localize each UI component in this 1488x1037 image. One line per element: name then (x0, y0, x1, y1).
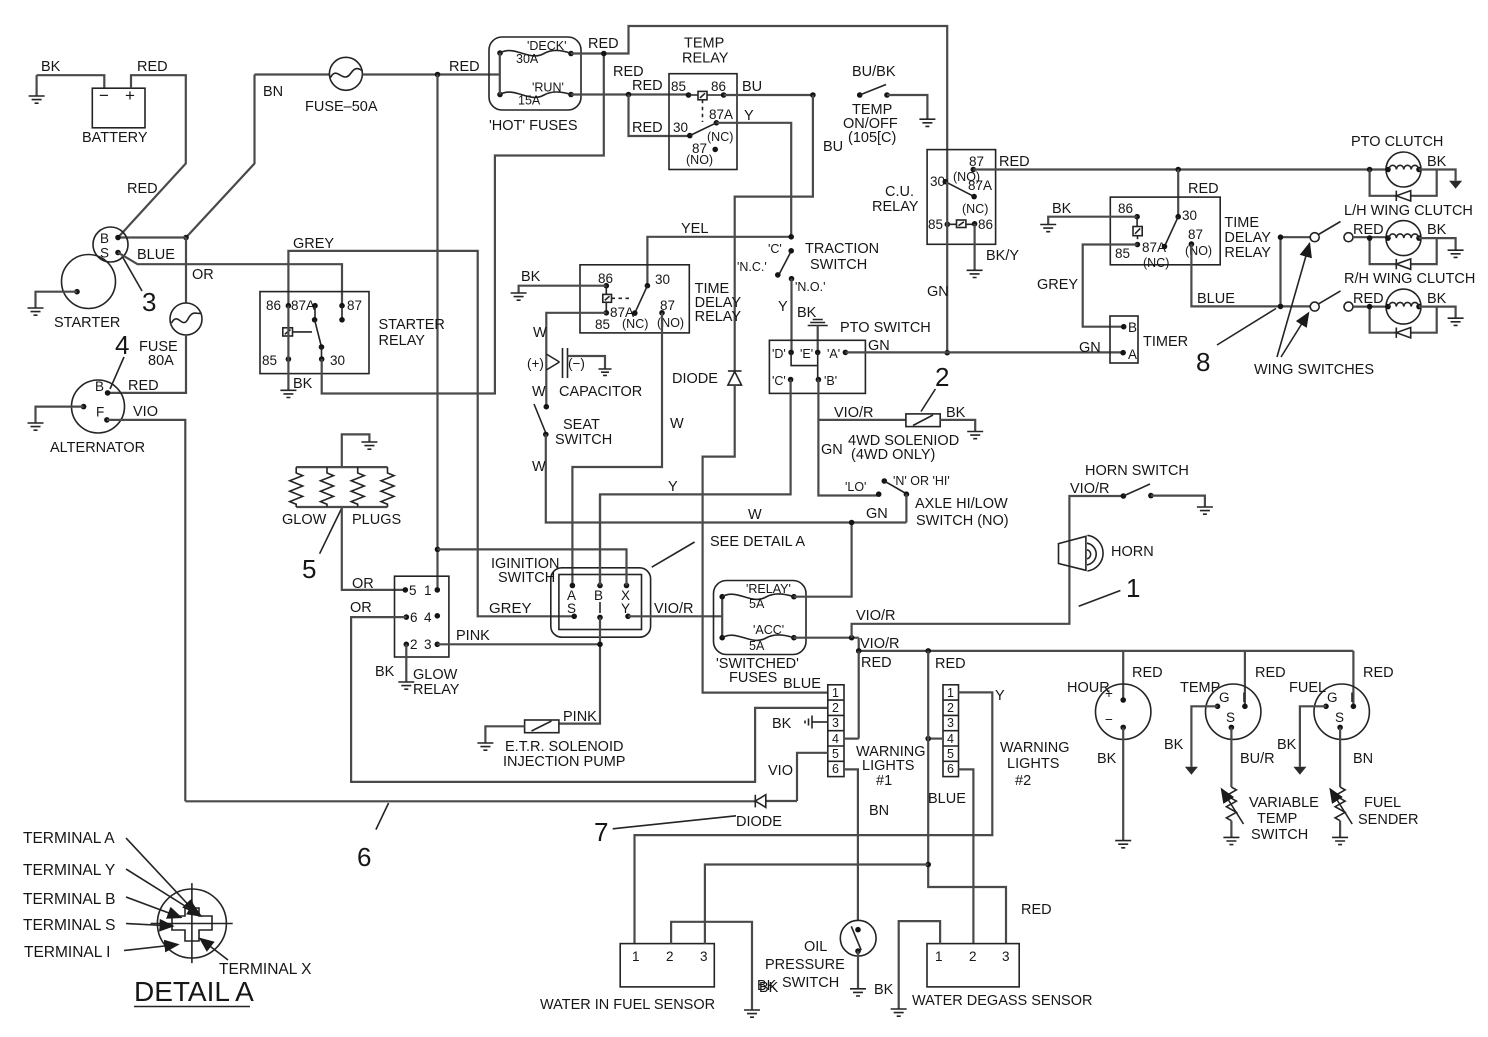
switched fuses box (714, 581, 807, 687)
pin 30 starter relay (319, 353, 345, 368)
svg-text:RED: RED (935, 656, 966, 672)
svg-text:+: + (125, 86, 135, 105)
diode L/H clutch (1367, 235, 1437, 269)
svg-text:S: S (1335, 710, 1344, 725)
svg-text:BK: BK (1427, 154, 1447, 170)
svg-text:BK: BK (1427, 222, 1447, 238)
wire Y temp relay 87A to traction (716, 108, 791, 237)
alternator A1 (50, 379, 145, 456)
pin 86 delay relay (1118, 201, 1140, 220)
svg-text:ALTERNATOR: ALTERNATOR (50, 440, 145, 456)
wire BU temp relay 86 to switch (724, 79, 813, 95)
wire W mid relay 85 to seat switch (533, 313, 606, 407)
wire RED battery to starter B (118, 59, 186, 238)
PTO switch S3 (769, 320, 930, 393)
svg-text:6: 6 (410, 610, 418, 625)
wire GN CU relay 85 down to timer line (927, 182, 950, 356)
armature delay relay (1142, 217, 1178, 270)
pin 30 mid relay (645, 272, 670, 289)
wire VIO/R ignition Y to switched fuses (628, 601, 722, 617)
svg-text:Y: Y (778, 299, 788, 315)
svg-text:1: 1 (832, 686, 839, 700)
svg-text:OR: OR (350, 600, 372, 616)
svg-text:AXLE HI/LOW: AXLE HI/LOW (915, 496, 1008, 512)
svg-text:−: − (99, 86, 109, 105)
svg-text:4: 4 (832, 732, 839, 746)
svg-text:FUEL: FUEL (1289, 680, 1326, 696)
pin 86 temp relay (711, 79, 726, 98)
svg-text:30: 30 (1182, 208, 1197, 223)
svg-text:BU/BK: BU/BK (852, 64, 896, 80)
svg-text:Y: Y (668, 479, 678, 495)
svg-text:(NC): (NC) (707, 130, 733, 144)
wire BK ground to mid relay 86 (511, 269, 607, 300)
wire GREY RED-node to ignition X (438, 549, 627, 585)
svg-text:YEL: YEL (681, 221, 708, 237)
svg-text:PRESSURE: PRESSURE (765, 957, 845, 973)
label terminal Y (23, 862, 201, 916)
svg-text:VIO/R: VIO/R (860, 636, 899, 652)
svg-text:1: 1 (424, 583, 432, 598)
svg-text:RED: RED (632, 78, 663, 94)
svg-text:86: 86 (711, 79, 726, 94)
svg-text:(NC): (NC) (1143, 256, 1169, 270)
label terminal A (23, 830, 196, 913)
svg-text:30: 30 (673, 120, 688, 135)
label terminal B (23, 891, 181, 918)
svg-text:2: 2 (832, 701, 839, 715)
horn H1 (1059, 535, 1154, 571)
svg-text:GLOW: GLOW (413, 667, 458, 683)
svg-text:PINK: PINK (563, 709, 597, 725)
svg-text:VIO: VIO (768, 763, 793, 779)
wire BK hour meter to ground (1097, 727, 1131, 847)
svg-text:BU/R: BU/R (1240, 751, 1275, 767)
svg-text:'N' OR 'HI': 'N' OR 'HI' (893, 474, 950, 488)
gauge temp (1180, 651, 1286, 740)
label 8 pointer to BLUE (1196, 309, 1276, 378)
svg-text:TERMINAL S: TERMINAL S (23, 917, 115, 934)
wire BLUE WL2 pin 6 to water degass 2 (928, 769, 973, 943)
svg-text:SWITCH: SWITCH (782, 975, 839, 991)
svg-text:W: W (532, 384, 546, 400)
svg-text:W: W (748, 507, 762, 523)
wire RED WL2 pin 4 (925, 736, 943, 742)
ground BK/Y CU relay 86 (967, 224, 1020, 278)
pin S ignition (567, 601, 577, 619)
svg-text:30: 30 (655, 272, 670, 287)
svg-text:85: 85 (262, 353, 277, 368)
oil pressure switch S5 (757, 920, 876, 996)
svg-text:RELAY: RELAY (1224, 245, 1271, 261)
svg-text:B: B (1128, 320, 1137, 335)
fuse RUN 15A (497, 81, 574, 108)
svg-text:'C': 'C' (768, 242, 782, 256)
ground battery BK (29, 75, 45, 103)
svg-text:1: 1 (1126, 573, 1140, 603)
svg-text:'LO': 'LO' (845, 480, 866, 494)
label 4 pointer to alternator B (110, 330, 129, 389)
svg-text:RED: RED (128, 378, 159, 394)
svg-text:HORN SWITCH: HORN SWITCH (1085, 463, 1189, 479)
svg-text:TERMINAL A: TERMINAL A (23, 830, 115, 847)
svg-text:C.U.: C.U. (885, 184, 914, 200)
svg-text:(+): (+) (527, 356, 544, 371)
svg-text:BK: BK (1097, 751, 1117, 767)
R/H wing clutch L3 (1344, 271, 1475, 324)
wire BK water in fuel 2 to ground (671, 922, 779, 1017)
svg-text:OR: OR (352, 576, 374, 592)
wire starter to ground (28, 292, 78, 316)
wire alternator to ground (28, 407, 84, 431)
sensor water in fuel (540, 944, 715, 1013)
svg-text:RED: RED (127, 181, 158, 197)
svg-text:'RUN': 'RUN' (532, 81, 564, 95)
wire OR glow relay 6 to warning lights 2 (350, 600, 828, 782)
pin 85 CU relay (928, 217, 950, 232)
svg-text:RED: RED (632, 120, 663, 136)
svg-text:SWITCH: SWITCH (555, 432, 612, 448)
svg-text:4: 4 (115, 330, 129, 360)
label terminal X (200, 939, 312, 979)
svg-text:S: S (567, 601, 576, 616)
svg-text:6: 6 (947, 762, 954, 776)
wire RED run output to temp relay 85 (571, 64, 689, 97)
svg-text:BK: BK (759, 980, 779, 996)
timer T1 (1110, 316, 1188, 363)
svg-text:B: B (594, 588, 603, 603)
svg-text:'RELAY': 'RELAY' (746, 582, 791, 596)
starter motor M (54, 255, 120, 332)
svg-text:GLOW: GLOW (282, 512, 327, 528)
ground glow relay 2 (398, 644, 414, 689)
svg-text:VIO/R: VIO/R (1070, 481, 1109, 497)
svg-text:87: 87 (969, 154, 984, 169)
svg-text:87A: 87A (709, 107, 733, 122)
svg-text:FUEL: FUEL (1364, 795, 1401, 811)
switch seat (532, 384, 612, 448)
wire BK ground to delay relay 86 (1040, 201, 1137, 232)
pin 85 delay relay (1115, 242, 1140, 261)
svg-text:TEMP: TEMP (1180, 680, 1220, 696)
svg-text:SEE DETAIL A: SEE DETAIL A (710, 534, 805, 550)
switch traction C NC NO (737, 241, 879, 294)
svg-text:GN: GN (868, 338, 890, 354)
svg-text:Y: Y (995, 688, 1005, 704)
svg-text:5: 5 (302, 554, 316, 584)
svg-text:3: 3 (424, 637, 432, 652)
svg-text:5A: 5A (749, 597, 765, 611)
svg-text:Y: Y (621, 601, 630, 616)
fuse RELAY 5A (719, 582, 796, 638)
label 3 pointer to S (122, 256, 156, 317)
wire Y traction NO to PTO D (778, 279, 792, 353)
wire VIO WL1 pin 5 to diode (768, 753, 828, 801)
pin 86 starter relay (266, 298, 291, 313)
svg-text:86: 86 (1118, 201, 1133, 216)
pin 87A temp relay (707, 107, 733, 144)
diode PTO clutch (1370, 170, 1437, 202)
wire GN PTO A to timer A (845, 338, 1123, 356)
wire water in fuel 3 to RED node (705, 865, 928, 944)
pin 85 mid relay (595, 310, 648, 332)
time delay relay K3 mid (580, 265, 741, 333)
coil starter relay (283, 328, 312, 336)
svg-text:RELAY: RELAY (695, 309, 742, 325)
pin C PTO (772, 374, 793, 388)
svg-text:3: 3 (700, 949, 708, 964)
wire BLUE S to starter relay 87 (118, 247, 342, 306)
svg-text:(−): (−) (568, 356, 585, 371)
fuse F2 80A (139, 303, 202, 369)
ground BK L/H clutch (1419, 222, 1464, 257)
svg-text:GN: GN (1079, 340, 1101, 356)
ground glow plugs (342, 434, 378, 467)
coil CU relay (947, 220, 974, 228)
PTO clutch L1 (1351, 134, 1443, 187)
pin 30 delay relay (1175, 208, 1197, 223)
svg-text:SENDER: SENDER (1358, 812, 1418, 828)
wire PINK ignition B column to ETR (559, 494, 603, 723)
pin 87 CU relay (953, 154, 984, 184)
wire RED CU 87 to PTO clutch (973, 154, 1387, 172)
wire RED bus drop to water degass 3 (925, 651, 1051, 944)
fuse DECK 30A (497, 39, 574, 66)
svg-text:SWITCH: SWITCH (1251, 827, 1308, 843)
fuel sender (1330, 727, 1418, 844)
svg-text:BK: BK (375, 664, 395, 680)
pin 2 glow relay (404, 637, 418, 652)
pin E PTO (800, 347, 821, 361)
svg-text:7: 7 (594, 817, 608, 847)
svg-text:FUSE–50A: FUSE–50A (305, 99, 378, 115)
wire BN fuse-50A to node (186, 75, 283, 238)
svg-text:BK: BK (772, 716, 792, 732)
glow plugs R1-R4 (282, 467, 401, 528)
svg-text:PTO SWITCH: PTO SWITCH (840, 320, 931, 336)
svg-text:85: 85 (1115, 246, 1130, 261)
pin 6 glow relay (404, 610, 418, 625)
svg-text:85: 85 (928, 217, 943, 232)
connector warning lights #2 (943, 685, 1070, 789)
svg-text:BU: BU (742, 79, 762, 95)
svg-text:BK: BK (521, 269, 541, 285)
pin 85 temp relay (671, 79, 691, 98)
svg-text:B: B (95, 379, 104, 394)
pin A PTO (827, 347, 848, 361)
svg-text:RED: RED (999, 154, 1030, 170)
pin D PTO (772, 347, 794, 361)
svg-text:(4WD ONLY): (4WD ONLY) (851, 447, 935, 463)
coil delay relay (1133, 217, 1142, 242)
svg-text:HORN: HORN (1111, 544, 1154, 560)
label 7 pointer to diode (594, 816, 736, 847)
svg-text:RED: RED (1363, 665, 1394, 681)
ground BK PTO clutch (1419, 154, 1462, 189)
svg-text:FUSES: FUSES (729, 670, 777, 686)
svg-text:RED: RED (137, 59, 168, 75)
wire RED deck output to CU relay 30 (571, 26, 947, 182)
pin Y ignition (621, 601, 631, 619)
wire RED fuse-50A to HOT fuses (363, 59, 500, 77)
wire BK temp G to ground (1164, 706, 1218, 774)
svg-text:86: 86 (266, 298, 281, 313)
svg-text:TIMER: TIMER (1143, 334, 1188, 350)
svg-text:I: I (1242, 690, 1246, 705)
CU relay K4 (872, 150, 996, 245)
svg-text:1: 1 (632, 949, 640, 964)
label terminal I (24, 944, 178, 961)
glow relay K5 (375, 576, 460, 698)
node BU junction (810, 92, 816, 98)
pin 1 glow relay (424, 583, 440, 598)
wire GN PTO B down to axle (818, 380, 878, 496)
svg-text:L/H WING CLUTCH: L/H WING CLUTCH (1344, 203, 1473, 219)
pin 5 glow relay (403, 583, 417, 598)
coil mid relay (603, 286, 629, 313)
svg-text:87A: 87A (968, 178, 992, 193)
wire RED long vertical to glow relay 1 (435, 75, 441, 590)
pin 87A starter relay (291, 298, 318, 323)
svg-text:A: A (1128, 347, 1137, 362)
svg-text:(NC): (NC) (622, 317, 648, 331)
svg-text:DELAY: DELAY (1224, 230, 1271, 246)
svg-text:STARTER: STARTER (379, 317, 445, 333)
svg-text:RED: RED (449, 59, 480, 75)
pin 30 temp relay (673, 120, 716, 138)
svg-text:TERMINAL I: TERMINAL I (24, 944, 110, 961)
svg-text:TEMP: TEMP (684, 36, 724, 52)
label 5 pointer glow plugs (302, 508, 342, 584)
switch TEMP ON/OFF (843, 64, 935, 146)
pin 87 mid relay (657, 298, 684, 330)
label terminal S (23, 917, 173, 934)
svg-text:TEMP: TEMP (1257, 811, 1297, 827)
wire W seat switch to relay fuse junction (532, 434, 906, 523)
svg-text:CAPACITOR: CAPACITOR (559, 384, 642, 400)
pointer SEE DETAIL A (652, 534, 806, 567)
svg-text:BK: BK (946, 405, 966, 421)
svg-text:TERMINAL B: TERMINAL B (23, 891, 115, 908)
wire Y PTO C to ignition B (600, 380, 791, 586)
wire BK water degass 1 to ground (874, 921, 940, 1016)
wire starter relay 30 to RED deck node (322, 54, 604, 394)
svg-text:BK/Y: BK/Y (986, 248, 1019, 264)
fuse link ETR (477, 709, 625, 770)
variable temp switch (1222, 727, 1320, 844)
svg-text:'DECK': 'DECK' (527, 39, 567, 53)
wire OR glow plugs to glow relay 5 (342, 507, 406, 592)
label wing switches arrows (1254, 244, 1374, 379)
wire BU down to diode (735, 95, 843, 371)
svg-text:RED: RED (861, 655, 892, 671)
L/H wing clutch L2 (1344, 203, 1473, 256)
pin B ignition (594, 583, 603, 621)
svg-text:(NO): (NO) (1185, 244, 1212, 258)
gauge hour meter (1067, 651, 1163, 740)
svg-text:5: 5 (832, 747, 839, 761)
time delay relay K6 right (1110, 197, 1271, 265)
svg-text:WING SWITCHES: WING SWITCHES (1254, 362, 1374, 378)
svg-text:B: B (100, 231, 109, 246)
svg-text:3: 3 (832, 716, 839, 730)
wire PINK glow relay 3 to ignition B column (437, 628, 600, 644)
svg-text:'HOT' FUSES: 'HOT' FUSES (489, 118, 578, 134)
wire BK starter relay 85 to ground (280, 359, 312, 397)
wire OR node to fuse 80A (186, 238, 214, 304)
pin 86 mid relay (598, 271, 613, 289)
svg-text:1: 1 (947, 686, 954, 700)
svg-text:SWITCH (NO): SWITCH (NO) (916, 513, 1009, 529)
wire BN WL1 pin 6 to oil pressure switch (844, 769, 889, 921)
svg-text:'C': 'C' (772, 374, 786, 388)
svg-text:3: 3 (947, 716, 954, 730)
diode R/H clutch (1367, 304, 1437, 338)
svg-text:BK: BK (41, 59, 61, 75)
svg-text:BK: BK (1052, 201, 1072, 217)
svg-text:'N.C.': 'N.C.' (737, 260, 767, 274)
sensor water degass (912, 944, 1092, 1009)
svg-text:5: 5 (947, 747, 954, 761)
svg-text:RED: RED (1255, 665, 1286, 681)
svg-text:BN: BN (869, 803, 889, 819)
svg-text:OIL: OIL (804, 939, 827, 955)
svg-text:W: W (670, 416, 684, 432)
pin 87 delay relay (1185, 227, 1212, 258)
svg-text:87: 87 (347, 298, 362, 313)
svg-text:SEAT: SEAT (563, 417, 600, 433)
svg-text:E.T.R. SOLENOID: E.T.R. SOLENOID (505, 739, 623, 755)
svg-text:LIGHTS: LIGHTS (1007, 756, 1059, 772)
svg-text:30A: 30A (516, 52, 539, 66)
svg-text:RELAY: RELAY (682, 51, 729, 67)
starter relay K1 (260, 292, 445, 374)
svg-text:INJECTION PUMP: INJECTION PUMP (503, 754, 625, 770)
svg-text:SWITCH: SWITCH (810, 257, 867, 273)
svg-text:BLUE: BLUE (137, 247, 175, 263)
svg-text:85: 85 (595, 317, 610, 332)
svg-text:TIME: TIME (1224, 215, 1259, 231)
pin X ignition (621, 583, 630, 603)
svg-text:DETAIL A: DETAIL A (134, 976, 254, 1007)
svg-text:Y: Y (744, 108, 754, 124)
svg-text:BLUE: BLUE (783, 676, 821, 692)
coil temp relay (689, 91, 724, 122)
svg-text:I: I (1350, 690, 1354, 705)
svg-text:VIO/R: VIO/R (654, 601, 693, 617)
pin A ignition (567, 583, 576, 603)
svg-text:GN: GN (821, 442, 843, 458)
svg-text:4: 4 (947, 732, 954, 746)
svg-text:BLUE: BLUE (1197, 291, 1235, 307)
svg-text:WATER IN FUEL SENSOR: WATER IN FUEL SENSOR (540, 997, 715, 1013)
pin 3 glow relay (424, 637, 440, 652)
svg-text:VIO/R: VIO/R (856, 608, 895, 624)
svg-text:87A: 87A (291, 298, 315, 313)
svg-text:RELAY: RELAY (872, 199, 919, 215)
svg-text:BK: BK (797, 305, 817, 321)
svg-text:GN: GN (927, 284, 949, 300)
svg-text:RELAY: RELAY (379, 333, 426, 349)
svg-text:GREY: GREY (1037, 277, 1078, 293)
wire RED WL1 pin 4 (844, 651, 859, 739)
svg-text:STARTER: STARTER (54, 315, 120, 331)
ignition switch S1 (491, 556, 651, 637)
wire W mid relay 87 to ignition A (572, 313, 684, 586)
switch axle hi/low (845, 474, 1009, 529)
svg-text:6: 6 (357, 842, 371, 872)
label 2 pointer to 4WD solenoid (921, 362, 949, 412)
